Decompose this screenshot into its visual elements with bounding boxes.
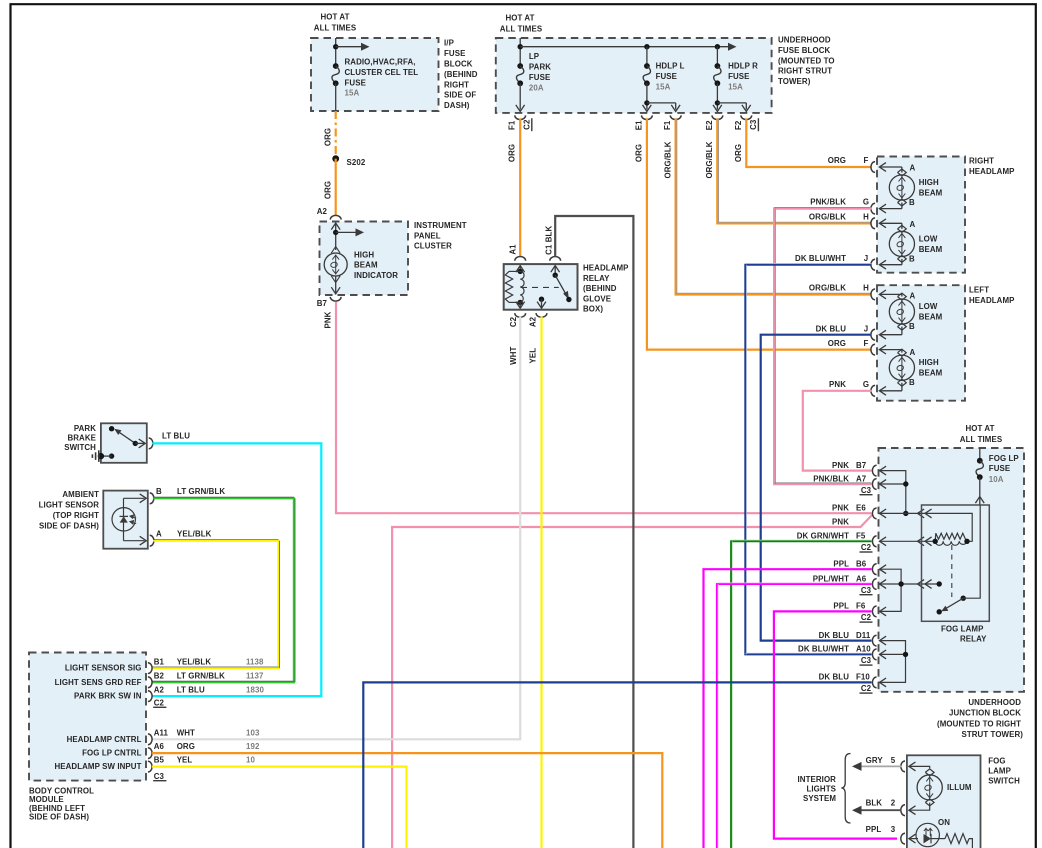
headlamp relay bbox=[504, 226, 578, 328]
svg-text:B: B bbox=[909, 378, 915, 387]
pin A2 (instrument panel cluster) bbox=[330, 215, 341, 219]
svg-text:LIGHT SENSOR SIG: LIGHT SENSOR SIG bbox=[65, 663, 142, 672]
wire WHT (relay C2 to BCM A11) bbox=[152, 317, 520, 740]
wire ORG (BCM A6 fog lp cntrl, down) bbox=[152, 753, 662, 848]
svg-text:S202: S202 bbox=[347, 158, 366, 167]
svg-text:PANEL: PANEL bbox=[414, 231, 441, 240]
svg-text:15A: 15A bbox=[656, 82, 671, 91]
pin A1 (headlamp relay) bbox=[515, 257, 526, 261]
underhood fuse block bbox=[496, 38, 772, 113]
svg-text:192: 192 bbox=[246, 742, 260, 751]
low beam bulb (left) bbox=[879, 293, 902, 295]
svg-text:C3: C3 bbox=[861, 586, 872, 595]
svg-text:YEL: YEL bbox=[528, 348, 537, 364]
svg-text:BLK: BLK bbox=[545, 226, 554, 243]
wire YEL (BCM B5 headlamp sw input, down) bbox=[152, 767, 407, 848]
svg-text:C3: C3 bbox=[154, 772, 165, 781]
svg-text:RIGHT STRUT: RIGHT STRUT bbox=[778, 67, 832, 76]
right headlamp bbox=[871, 157, 965, 273]
svg-text:YEL: YEL bbox=[177, 756, 193, 765]
svg-text:1830: 1830 bbox=[246, 686, 264, 695]
svg-text:DK BLU: DK BLU bbox=[816, 325, 847, 334]
wire ORG (E1 to left headlamp F) bbox=[647, 118, 872, 349]
svg-text:A1: A1 bbox=[509, 244, 518, 255]
svg-text:(BEHIND LEFT: (BEHIND LEFT bbox=[29, 804, 85, 813]
pin B2 (BCM) bbox=[148, 677, 152, 688]
svg-text:I/P: I/P bbox=[444, 39, 454, 48]
svg-text:B1: B1 bbox=[154, 658, 165, 667]
svg-text:B2: B2 bbox=[154, 672, 165, 681]
svg-text:ORG: ORG bbox=[635, 144, 644, 162]
svg-text:F10: F10 bbox=[856, 673, 870, 682]
svg-text:A2: A2 bbox=[154, 686, 165, 695]
svg-text:FUSE BLOCK: FUSE BLOCK bbox=[778, 46, 830, 55]
svg-text:F1: F1 bbox=[663, 120, 672, 130]
high beam bulb (left) bbox=[879, 349, 902, 351]
wire ORG (I/P fuse to S202, dash-dot) bbox=[335, 111, 337, 159]
fuse FOG LP 10A bbox=[979, 448, 981, 461]
pin A2 (headlamp relay) bbox=[539, 297, 544, 302]
svg-text:ORG/BLK: ORG/BLK bbox=[664, 141, 673, 178]
junction block internal: E6 to relay coil bbox=[880, 509, 887, 518]
pin A2 (BCM) bbox=[148, 691, 152, 702]
resistor (fog lamp switch) bbox=[931, 838, 945, 840]
pin E6 (junction block) bbox=[872, 508, 876, 519]
pin F bbox=[871, 162, 875, 173]
svg-text:LIGHT SENS GRD REF: LIGHT SENS GRD REF bbox=[55, 678, 142, 687]
svg-text:B: B bbox=[156, 487, 162, 496]
svg-text:HEADLAMP CNTRL: HEADLAMP CNTRL bbox=[67, 735, 142, 744]
svg-text:HDLP R: HDLP R bbox=[728, 62, 758, 71]
svg-text:C1: C1 bbox=[545, 244, 554, 255]
svg-text:B5: B5 bbox=[154, 756, 165, 765]
fog relay switch bbox=[961, 596, 966, 601]
svg-text:15A: 15A bbox=[345, 89, 360, 98]
svg-text:A7: A7 bbox=[856, 474, 867, 483]
svg-text:(MOUNTED TO: (MOUNTED TO bbox=[778, 56, 835, 65]
pin F10 (junction block) bbox=[872, 677, 876, 688]
svg-text:A: A bbox=[156, 530, 162, 539]
svg-text:F1: F1 bbox=[507, 120, 516, 130]
svg-text:PPL/WHT: PPL/WHT bbox=[813, 574, 849, 583]
junction block internal: B7/A7/E6 bus bbox=[880, 466, 887, 475]
svg-text:BLK: BLK bbox=[866, 799, 883, 808]
ground (park brake switch) bbox=[109, 453, 114, 458]
svg-text:WHT: WHT bbox=[177, 728, 195, 737]
svg-text:C2: C2 bbox=[509, 316, 518, 327]
pin B7 (instrument panel cluster) bbox=[330, 297, 341, 301]
svg-text:TOWER): TOWER) bbox=[778, 77, 811, 86]
svg-text:ALL TIMES: ALL TIMES bbox=[314, 24, 356, 33]
svg-text:BEAM: BEAM bbox=[919, 188, 943, 197]
svg-text:LP: LP bbox=[529, 52, 539, 61]
ambient light sensor bbox=[103, 491, 154, 549]
connector F2/C3 bbox=[741, 115, 752, 119]
svg-text:A: A bbox=[910, 348, 916, 357]
pin C2 (headlamp relay) bbox=[515, 313, 526, 317]
svg-text:FOG LAMP: FOG LAMP bbox=[941, 625, 983, 634]
high beam bulb (right) bbox=[879, 166, 902, 168]
ON indicator LED bbox=[916, 823, 939, 846]
svg-text:MODULE: MODULE bbox=[29, 795, 64, 804]
wire PNK (cluster B7 to underhood junction block E6) bbox=[336, 302, 872, 513]
svg-text:CLUSTER: CLUSTER bbox=[414, 242, 452, 251]
svg-text:E2: E2 bbox=[705, 120, 714, 130]
pin A6 (BCM) bbox=[148, 748, 152, 759]
svg-text:RELAY: RELAY bbox=[583, 274, 610, 283]
wire ORG (F2 to right headlamp F) bbox=[746, 118, 871, 167]
svg-text:1137: 1137 bbox=[246, 672, 264, 681]
svg-text:C2: C2 bbox=[154, 698, 165, 707]
svg-text:DK BLU: DK BLU bbox=[819, 631, 850, 640]
svg-text:J: J bbox=[864, 254, 869, 263]
svg-text:BLOCK: BLOCK bbox=[444, 60, 473, 69]
svg-text:ORG: ORG bbox=[734, 144, 743, 162]
svg-text:LOW: LOW bbox=[919, 235, 938, 244]
svg-text:DK BLU: DK BLU bbox=[819, 673, 850, 682]
svg-text:B6: B6 bbox=[856, 560, 867, 569]
svg-text:ALL TIMES: ALL TIMES bbox=[500, 25, 542, 34]
pin G bbox=[871, 385, 875, 396]
svg-text:RADIO,HVAC,RFA,: RADIO,HVAC,RFA, bbox=[345, 58, 416, 67]
svg-text:E6: E6 bbox=[856, 504, 866, 513]
svg-text:B: B bbox=[909, 322, 915, 331]
svg-text:HIGH: HIGH bbox=[354, 251, 374, 260]
svg-text:2: 2 bbox=[891, 799, 896, 808]
svg-text:D11: D11 bbox=[856, 631, 871, 640]
pin B6 (junction block) bbox=[872, 564, 876, 575]
svg-text:LIGHT SENSOR: LIGHT SENSOR bbox=[39, 501, 100, 510]
svg-text:LEFT: LEFT bbox=[969, 286, 989, 295]
svg-text:HDLP L: HDLP L bbox=[656, 62, 685, 71]
svg-text:B: B bbox=[909, 254, 915, 263]
svg-text:C3: C3 bbox=[861, 486, 872, 495]
svg-text:HEADLAMP: HEADLAMP bbox=[969, 296, 1015, 305]
svg-text:HOT AT: HOT AT bbox=[320, 13, 349, 22]
svg-text:ORG: ORG bbox=[324, 181, 333, 199]
svg-text:YEL/BLK: YEL/BLK bbox=[177, 658, 212, 667]
pin F6 (junction block) bbox=[872, 606, 876, 617]
pin B7 (junction block) bbox=[872, 465, 876, 476]
svg-text:F: F bbox=[864, 156, 869, 165]
wire PNK/BLK (right headlamp G to junction block A7) bbox=[774, 209, 871, 484]
svg-text:BEAM: BEAM bbox=[919, 245, 943, 254]
svg-text:LAMP: LAMP bbox=[988, 767, 1011, 776]
svg-text:C3: C3 bbox=[861, 656, 872, 665]
pin F bbox=[871, 344, 875, 355]
svg-text:C2: C2 bbox=[523, 119, 532, 130]
svg-text:C3: C3 bbox=[749, 119, 758, 130]
svg-text:J: J bbox=[864, 325, 869, 334]
svg-text:E1: E1 bbox=[635, 120, 644, 130]
svg-text:PNK: PNK bbox=[829, 380, 846, 389]
connector E1 bbox=[642, 115, 653, 119]
svg-text:H: H bbox=[863, 284, 869, 293]
svg-text:ORG/BLK: ORG/BLK bbox=[809, 284, 846, 293]
pin G bbox=[871, 203, 875, 214]
svg-text:HEADLAMP: HEADLAMP bbox=[969, 167, 1015, 176]
svg-text:A: A bbox=[910, 164, 916, 173]
svg-text:C2: C2 bbox=[861, 613, 872, 622]
svg-text:10A: 10A bbox=[989, 475, 1004, 484]
pin A (sensor) bbox=[150, 535, 154, 546]
wire PPL (junction B6, down) bbox=[704, 569, 872, 848]
junction block internal: F5 to relay coil bbox=[880, 537, 887, 546]
relay coil bbox=[518, 269, 523, 274]
svg-text:FUSE: FUSE bbox=[444, 49, 465, 58]
wire PPL/WHT (junction A6, down) bbox=[717, 584, 872, 848]
wire DK BLU (junction F10, down-left) bbox=[363, 682, 871, 848]
svg-text:SIDE OF DASH): SIDE OF DASH) bbox=[39, 522, 99, 531]
wire ORG/BLK (E2 to right headlamp H) bbox=[717, 118, 871, 223]
fog lamp switch bbox=[901, 755, 981, 848]
svg-text:LT BLU: LT BLU bbox=[162, 431, 190, 440]
svg-text:(TOP RIGHT: (TOP RIGHT bbox=[53, 511, 99, 520]
svg-text:PPL: PPL bbox=[833, 560, 849, 569]
svg-text:UNDERHOOD: UNDERHOOD bbox=[968, 698, 1021, 707]
wire DK BLU (left headlamp J to junction block D11) bbox=[761, 335, 872, 641]
svg-text:FUSE: FUSE bbox=[728, 72, 749, 81]
svg-text:GLOVE: GLOVE bbox=[583, 294, 611, 303]
svg-text:PNK: PNK bbox=[832, 504, 849, 513]
connector F1/C2 (fuse block output) bbox=[515, 115, 526, 119]
svg-text:HOT AT: HOT AT bbox=[965, 424, 994, 433]
svg-text:PARK: PARK bbox=[529, 63, 551, 72]
svg-text:BEAM: BEAM bbox=[354, 261, 378, 270]
svg-text:ORG/BLK: ORG/BLK bbox=[705, 141, 714, 178]
pin F5 (junction block) bbox=[872, 536, 876, 547]
svg-text:LIGHTS: LIGHTS bbox=[806, 785, 836, 794]
underhood junction block bbox=[879, 448, 1025, 692]
svg-text:A2: A2 bbox=[528, 316, 537, 327]
svg-text:A6: A6 bbox=[154, 742, 165, 751]
svg-text:DK BLU/WHT: DK BLU/WHT bbox=[795, 254, 846, 263]
photodiode symbol bbox=[112, 508, 135, 531]
pin A6 (junction block) bbox=[872, 579, 876, 590]
svg-text:FOG LP: FOG LP bbox=[989, 454, 1019, 463]
svg-text:F6: F6 bbox=[856, 602, 866, 611]
low beam bulb (right) bbox=[879, 222, 902, 224]
body control module bbox=[29, 653, 264, 781]
svg-text:B7: B7 bbox=[856, 461, 867, 470]
pin 2 (fog lamp switch) bbox=[909, 806, 916, 815]
wire YEL (relay A2 down) bbox=[540, 317, 542, 848]
svg-text:YEL/BLK: YEL/BLK bbox=[177, 530, 212, 539]
fuse LP PARK 20A bbox=[517, 63, 523, 69]
svg-text:HEADLAMP SW INPUT: HEADLAMP SW INPUT bbox=[54, 762, 141, 771]
svg-text:SYSTEM: SYSTEM bbox=[803, 794, 836, 803]
svg-text:HIGH: HIGH bbox=[919, 178, 939, 187]
wire PNK (left headlamp G to junction block B7) bbox=[803, 391, 872, 471]
svg-text:WHT: WHT bbox=[509, 346, 518, 364]
instrument panel cluster bbox=[317, 207, 408, 308]
svg-text:G: G bbox=[863, 198, 869, 207]
fuse HDLP R 15A bbox=[716, 47, 718, 66]
svg-text:DK BLU/WHT: DK BLU/WHT bbox=[798, 645, 849, 654]
svg-text:PPL: PPL bbox=[866, 825, 882, 834]
pin 3 (fog lamp switch) bbox=[901, 833, 905, 844]
svg-text:PNK: PNK bbox=[832, 517, 849, 526]
svg-text:DASH): DASH) bbox=[444, 101, 470, 110]
svg-text:RELAY: RELAY bbox=[960, 635, 987, 644]
svg-text:15A: 15A bbox=[728, 82, 743, 91]
svg-text:RIGHT: RIGHT bbox=[444, 80, 469, 89]
svg-text:20A: 20A bbox=[529, 83, 544, 92]
svg-text:C2: C2 bbox=[861, 543, 872, 552]
svg-text:(BEHIND: (BEHIND bbox=[444, 70, 478, 79]
svg-text:A6: A6 bbox=[856, 574, 867, 583]
pin B (sensor) bbox=[150, 493, 154, 504]
svg-text:HOT AT: HOT AT bbox=[505, 14, 534, 23]
pin A11 (BCM) bbox=[148, 734, 152, 745]
pin B1 (BCM) bbox=[148, 663, 152, 674]
pin C1 (headlamp relay) bbox=[550, 257, 561, 261]
svg-text:PNK: PNK bbox=[832, 461, 849, 470]
wire YEL/BLK (sensor A to BCM B1) bbox=[152, 541, 279, 668]
svg-text:10: 10 bbox=[246, 756, 255, 765]
svg-text:PPL: PPL bbox=[833, 602, 849, 611]
svg-text:A10: A10 bbox=[856, 645, 871, 654]
svg-text:FUSE: FUSE bbox=[989, 464, 1010, 473]
svg-text:ORG: ORG bbox=[828, 339, 846, 348]
pin (park brake switch) bbox=[149, 438, 153, 449]
connector F1 (right) bbox=[670, 115, 681, 119]
svg-text:ORG/BLK: ORG/BLK bbox=[809, 213, 846, 222]
pin D11 (junction block) bbox=[872, 635, 876, 646]
ILLUM bulb bbox=[925, 769, 934, 776]
svg-text:JUNCTION BLOCK: JUNCTION BLOCK bbox=[949, 709, 1021, 718]
svg-text:C2: C2 bbox=[861, 684, 872, 693]
wire ORG (S202 to instrument panel cluster A2) bbox=[335, 159, 337, 216]
svg-text:BODY CONTROL: BODY CONTROL bbox=[29, 786, 94, 795]
svg-text:F2: F2 bbox=[734, 120, 743, 130]
svg-text:ALL TIMES: ALL TIMES bbox=[960, 435, 1002, 444]
wire GRY (fog switch pin 5 to interior lights) bbox=[861, 765, 901, 767]
svg-text:LT BLU: LT BLU bbox=[177, 686, 205, 695]
svg-text:SWITCH: SWITCH bbox=[988, 777, 1020, 786]
svg-text:HIGH: HIGH bbox=[919, 358, 939, 367]
svg-text:ORG: ORG bbox=[828, 156, 846, 165]
wire DK BLU/WHT (right headlamp J to junction block A10) bbox=[745, 265, 871, 655]
svg-text:A2: A2 bbox=[317, 207, 328, 216]
high beam indicator bulb bbox=[331, 247, 340, 254]
svg-text:G: G bbox=[863, 380, 869, 389]
pin A7 (junction block) bbox=[872, 479, 876, 490]
relay switch bbox=[553, 273, 558, 278]
svg-text:PNK/BLK: PNK/BLK bbox=[810, 198, 846, 207]
svg-text:SWITCH: SWITCH bbox=[64, 443, 96, 452]
svg-text:1138: 1138 bbox=[246, 658, 264, 667]
wire PNK (second feed to E6 from below) bbox=[392, 515, 872, 848]
svg-text:ORG: ORG bbox=[177, 742, 195, 751]
svg-text:AMBIENT: AMBIENT bbox=[62, 490, 99, 499]
svg-text:ORG: ORG bbox=[508, 144, 517, 162]
splice S202 bbox=[332, 155, 339, 162]
label: I/P FUSE BLOCK (BEHIND RIGHT SIDE OF DASH) bbox=[444, 39, 478, 110]
svg-text:ON: ON bbox=[938, 818, 950, 827]
svg-text:FUSE: FUSE bbox=[529, 73, 550, 82]
fuse HDLP L 15A bbox=[646, 47, 648, 66]
svg-text:INTERIOR: INTERIOR bbox=[797, 775, 836, 784]
pin H bbox=[871, 218, 875, 229]
svg-text:ORG: ORG bbox=[324, 128, 333, 146]
pin J bbox=[871, 329, 875, 340]
svg-text:3: 3 bbox=[891, 825, 896, 834]
connector E2 bbox=[712, 115, 723, 119]
pin B5 (BCM) bbox=[148, 761, 152, 772]
wire BLK (fog switch pin 2 to interior lights) bbox=[861, 809, 901, 811]
pin 5 (fog lamp switch) bbox=[901, 761, 905, 772]
fog relay coil bbox=[935, 533, 967, 541]
svg-text:(MOUNTED TO RIGHT: (MOUNTED TO RIGHT bbox=[937, 720, 1021, 729]
svg-text:BEAM: BEAM bbox=[919, 369, 943, 378]
svg-text:GRY: GRY bbox=[866, 756, 884, 765]
svg-text:(BEHIND: (BEHIND bbox=[583, 284, 617, 293]
wire LT GRN/BLK (sensor B to BCM B2) bbox=[152, 498, 294, 682]
svg-text:H: H bbox=[863, 213, 869, 222]
wire DK GRN/WHT (junction F5, down) bbox=[731, 541, 871, 848]
svg-text:B: B bbox=[909, 198, 915, 207]
svg-text:A11: A11 bbox=[154, 728, 169, 737]
svg-text:ILLUM: ILLUM bbox=[947, 783, 972, 792]
svg-text:A: A bbox=[910, 292, 916, 301]
svg-text:INDICATOR: INDICATOR bbox=[354, 271, 398, 280]
pin H bbox=[871, 289, 875, 300]
svg-text:103: 103 bbox=[246, 728, 260, 737]
svg-text:UNDERHOOD: UNDERHOOD bbox=[778, 36, 831, 45]
I/P fuse block bbox=[311, 38, 439, 111]
svg-text:LOW: LOW bbox=[919, 302, 938, 311]
svg-text:PARK: PARK bbox=[74, 424, 96, 433]
svg-text:STRUT TOWER): STRUT TOWER) bbox=[961, 730, 1023, 739]
svg-text:A: A bbox=[910, 220, 916, 229]
svg-text:FUSE: FUSE bbox=[656, 72, 677, 81]
svg-text:FUSE: FUSE bbox=[345, 78, 366, 87]
pin J bbox=[871, 259, 875, 270]
svg-text:BEAM: BEAM bbox=[919, 312, 943, 321]
svg-text:PNK: PNK bbox=[324, 311, 333, 328]
svg-text:PARK BRK SW IN: PARK BRK SW IN bbox=[74, 692, 142, 701]
svg-text:CLUSTER CEL TEL: CLUSTER CEL TEL bbox=[345, 68, 419, 77]
svg-text:B7: B7 bbox=[317, 299, 328, 308]
svg-text:F: F bbox=[864, 339, 869, 348]
left headlamp bbox=[871, 285, 965, 401]
pin A10 (junction block) bbox=[872, 649, 876, 660]
svg-text:RIGHT: RIGHT bbox=[969, 157, 994, 166]
svg-text:DK GRN/WHT: DK GRN/WHT bbox=[797, 532, 849, 541]
svg-text:LT GRN/BLK: LT GRN/BLK bbox=[177, 672, 225, 681]
svg-text:PNK/BLK: PNK/BLK bbox=[813, 474, 849, 483]
wire ORG (F1 to headlamp relay A1) bbox=[519, 118, 521, 257]
svg-text:SIDE OF: SIDE OF bbox=[444, 91, 476, 100]
junction block internal: D11/A10/F10 bus bbox=[880, 636, 887, 645]
svg-text:BRAKE: BRAKE bbox=[67, 434, 96, 443]
label: HEADLAMP RELAY (BEHIND GLOVE BOX) bbox=[583, 264, 629, 314]
wire LT BLU (park brake switch to BCM A2) bbox=[152, 443, 321, 696]
svg-text:HEADLAMP: HEADLAMP bbox=[583, 264, 629, 273]
wire PPL (junction F6 to fog lamp switch pin 3) bbox=[774, 611, 897, 838]
junction block internal: B6/A6/F6 bus bbox=[880, 565, 887, 574]
svg-text:5: 5 bbox=[891, 756, 896, 765]
svg-text:FOG LP CNTRL: FOG LP CNTRL bbox=[82, 749, 141, 758]
label: UNDERHOOD FUSE BLOCK (MOUNTED TO RIGHT STRUT TOWER) bbox=[778, 36, 835, 87]
svg-text:FOG: FOG bbox=[988, 757, 1005, 766]
svg-text:F5: F5 bbox=[856, 532, 866, 541]
svg-text:LT GRN/BLK: LT GRN/BLK bbox=[177, 487, 225, 496]
svg-text:INSTRUMENT: INSTRUMENT bbox=[414, 221, 467, 230]
svg-text:BOX): BOX) bbox=[583, 305, 603, 314]
fog lamp relay bbox=[922, 505, 990, 621]
